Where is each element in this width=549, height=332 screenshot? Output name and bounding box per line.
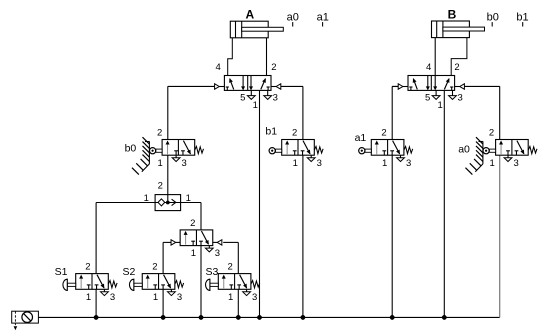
valve a0 port labels — [489, 128, 519, 169]
svg-text:2: 2 — [489, 128, 494, 139]
svg-text:1: 1 — [253, 100, 258, 111]
valve a1 port labels — [381, 128, 411, 169]
position marker a0 — [287, 11, 299, 26]
svg-text:3: 3 — [457, 92, 462, 103]
valve S2 internals — [146, 275, 171, 290]
wire bus right riser to valve a0 port 1 (pressurized) — [499, 155, 501, 317]
junction node J6 — [301, 315, 305, 319]
svg-text:3: 3 — [317, 158, 322, 169]
valve S1 internals — [79, 275, 104, 290]
label b0 — [125, 143, 137, 155]
valve V_A internals — [226, 76, 270, 91]
junction node J5 — [257, 315, 261, 319]
cylinder A body — [230, 21, 268, 38]
position marker b1 — [516, 11, 528, 26]
svg-text:1: 1 — [489, 158, 494, 169]
valve V1 3/2 body — [180, 230, 213, 246]
wire cylinder A left port to valve A port 4 — [228, 38, 233, 76]
valve S1 pushbutton actuator — [63, 279, 76, 290]
svg-text:S2: S2 — [123, 266, 136, 278]
wire S3 stem: pilot line down through S3 to bus — [237, 242, 239, 317]
valve b1 3/2 body — [282, 140, 315, 156]
cylinder A piston rod — [242, 27, 284, 31]
valve V_A exhaust 3 — [264, 90, 272, 99]
valve a0 exhaust 3 — [504, 155, 512, 161]
svg-text:a1: a1 — [317, 11, 329, 23]
valve a1 internals — [375, 141, 400, 156]
valve S3 3/2 body — [218, 274, 251, 290]
valve a1 3/2 body — [371, 140, 404, 156]
valve a0 spring return — [528, 146, 537, 153]
svg-text:1: 1 — [186, 193, 191, 204]
valve b1 roller actuator — [269, 148, 282, 154]
wire shuttle output to middle valve port 2 — [181, 203, 201, 230]
junction node J4 — [236, 315, 240, 319]
wire valve A left pilot to valve b0 port 2 — [168, 86, 215, 139]
valve b1 internals — [285, 141, 310, 156]
svg-text:5: 5 — [425, 92, 430, 103]
valve b0 cam rail (actuated) — [132, 137, 149, 174]
valve S1 spring return — [108, 281, 117, 288]
label B — [448, 8, 457, 22]
svg-text:b1: b1 — [516, 11, 528, 23]
svg-text:2: 2 — [292, 128, 297, 139]
valve V1 port labels — [190, 218, 220, 259]
wire cylinder B right port to valve B port 2 — [451, 38, 467, 76]
valve S2 exhaust 3 — [168, 289, 176, 295]
wire valve B left pilot to valve a1 port 2 — [392, 86, 398, 139]
wire bus supply line — [38, 316, 499, 318]
svg-text:S1: S1 — [55, 266, 68, 278]
wire valve a1 port 1 to bus — [391, 155, 393, 317]
valve S2 spring return — [175, 281, 184, 288]
svg-text:3: 3 — [215, 248, 220, 259]
svg-text:2: 2 — [190, 218, 195, 229]
shuttle valve body — [155, 195, 181, 211]
valve a1 spring return — [404, 146, 413, 153]
svg-text:1: 1 — [86, 292, 91, 303]
svg-text:3: 3 — [182, 158, 187, 169]
svg-text:b1: b1 — [265, 126, 277, 138]
junction node J1 — [94, 315, 98, 319]
valve V_A pilot right 12 — [271, 84, 303, 89]
wire valve B port 1 to bus — [443, 90, 445, 317]
valve V_B exhaust 3 — [449, 90, 457, 99]
svg-text:4: 4 — [216, 62, 221, 73]
wire S2 to middle valve left pilot — [163, 241, 171, 243]
air service unit drain arrow — [14, 323, 18, 330]
wire valve A right pilot to valve b1 port 2 — [281, 86, 303, 139]
wire valve b1 port 1 to bus — [302, 155, 304, 317]
valve a0 internals — [499, 141, 524, 156]
valve V_A pilot left 14 — [168, 84, 225, 89]
svg-text:3: 3 — [406, 158, 411, 169]
valve V_A exhaust 5 — [247, 90, 255, 99]
svg-text:1: 1 — [191, 248, 196, 259]
valve a1 roller actuator — [359, 148, 372, 154]
svg-text:b0: b0 — [125, 143, 137, 155]
valve b0 port labels — [157, 128, 187, 169]
valve V1 exhaust 3 — [205, 246, 213, 252]
svg-text:2: 2 — [157, 128, 162, 139]
valve V1 internals — [184, 231, 209, 246]
wire valve B right pilot to valve a0 port 2 — [464, 86, 500, 139]
valve b0 roller actuator — [150, 148, 163, 154]
svg-text:A: A — [245, 8, 254, 22]
svg-text:2: 2 — [152, 262, 157, 273]
valve S3 port labels — [227, 262, 257, 303]
svg-text:2: 2 — [158, 181, 163, 192]
position marker a1 — [317, 11, 329, 26]
valve S3 internals — [222, 275, 247, 290]
wire valve A port 1 to bus — [259, 90, 261, 317]
svg-text:2: 2 — [454, 62, 459, 73]
junction node J2 — [161, 315, 165, 319]
svg-text:4: 4 — [426, 62, 431, 73]
valve S2 port labels — [152, 262, 182, 303]
valve b1 port labels — [292, 128, 322, 169]
valve V_B pilot left 14 — [392, 84, 408, 89]
valve a0 roller actuator — [483, 148, 496, 154]
valve V_B exhaust 5 — [432, 90, 440, 99]
valve b1 spring return — [314, 146, 323, 153]
label S3 — [206, 266, 219, 278]
valve S3 spring return — [251, 281, 260, 288]
svg-text:B: B — [448, 8, 457, 22]
valve b0 3/2 body — [162, 140, 195, 156]
valve V_B port labels — [425, 62, 463, 111]
wire S1 stem: shuttle left input down through S1 to bus — [95, 203, 97, 318]
svg-text:S3: S3 — [206, 266, 219, 278]
svg-text:a1: a1 — [355, 132, 367, 144]
wire cylinder A right port to valve A port 2 — [266, 38, 268, 76]
valve V_A 5/2 body — [224, 76, 271, 91]
svg-text:a0: a0 — [287, 11, 299, 23]
valve V1 pilot right — [213, 240, 222, 245]
svg-text:2: 2 — [85, 262, 90, 273]
valve V_B internals — [409, 76, 453, 91]
wire cylinder B left port to valve B port 4 — [434, 38, 436, 76]
valve b1 exhaust 3 — [307, 155, 315, 161]
wire shuttle left input horizontal — [96, 202, 155, 204]
svg-text:3: 3 — [273, 92, 278, 103]
label A — [245, 8, 254, 22]
svg-text:1: 1 — [228, 292, 233, 303]
label S1 — [55, 266, 68, 278]
valve V1 pilot left — [171, 240, 180, 245]
valve a0 cam rail (actuated) — [465, 137, 482, 174]
svg-text:1: 1 — [144, 193, 149, 204]
svg-text:2: 2 — [271, 62, 276, 73]
wire S3 to middle valve right pilot — [223, 241, 238, 243]
valve S1 port labels — [85, 262, 115, 303]
shuttle valve internals — [155, 195, 181, 206]
valve S2 3/2 body — [142, 274, 175, 290]
svg-text:3: 3 — [513, 158, 518, 169]
svg-text:3: 3 — [110, 292, 115, 303]
svg-text:5: 5 — [240, 92, 245, 103]
junction node J3 — [199, 315, 203, 319]
svg-text:3: 3 — [177, 292, 182, 303]
junction node J8 — [442, 315, 446, 319]
valve S3 exhaust 3 — [243, 289, 251, 295]
cylinder B body — [432, 21, 470, 38]
svg-text:a0: a0 — [458, 143, 470, 155]
svg-text:1: 1 — [382, 158, 387, 169]
svg-text:3: 3 — [252, 292, 257, 303]
wire valve b0 port 1 to shuttle port 2 — [167, 155, 169, 194]
cylinder B piston rod — [443, 27, 485, 31]
valve S1 exhaust 3 — [101, 289, 109, 295]
label a1 — [355, 132, 367, 144]
valve b0 exhaust 3 — [172, 155, 180, 161]
junction node J7 — [390, 315, 394, 319]
wire S2 stem: pilot line down through S2 to bus — [162, 242, 164, 317]
svg-text:1: 1 — [293, 158, 298, 169]
valve S2 pushbutton actuator — [129, 279, 142, 290]
air service unit — [12, 311, 39, 323]
valve S1 3/2 body — [76, 274, 109, 290]
position marker b0 — [487, 11, 499, 26]
svg-text:2: 2 — [381, 128, 386, 139]
valve b0 internals — [166, 141, 191, 156]
svg-text:1: 1 — [437, 100, 442, 111]
valve a1 exhaust 3 — [397, 155, 405, 161]
valve V_A port labels — [216, 62, 278, 111]
valve a0 3/2 body — [496, 140, 529, 156]
wire middle valve port 1 to bus — [200, 246, 202, 318]
valve S3 pushbutton actuator — [206, 279, 219, 290]
valve V_B 5/2 body — [408, 76, 455, 91]
valve V_B pilot right 12 — [455, 84, 500, 89]
label a0 — [458, 143, 470, 155]
svg-text:1: 1 — [158, 158, 163, 169]
svg-text:2: 2 — [227, 262, 232, 273]
svg-text:1: 1 — [153, 292, 158, 303]
label b1 — [265, 126, 277, 138]
svg-text:b0: b0 — [487, 11, 499, 23]
shuttle valve port labels — [144, 181, 191, 204]
valve b0 spring return — [195, 146, 204, 153]
label S2 — [123, 266, 136, 278]
